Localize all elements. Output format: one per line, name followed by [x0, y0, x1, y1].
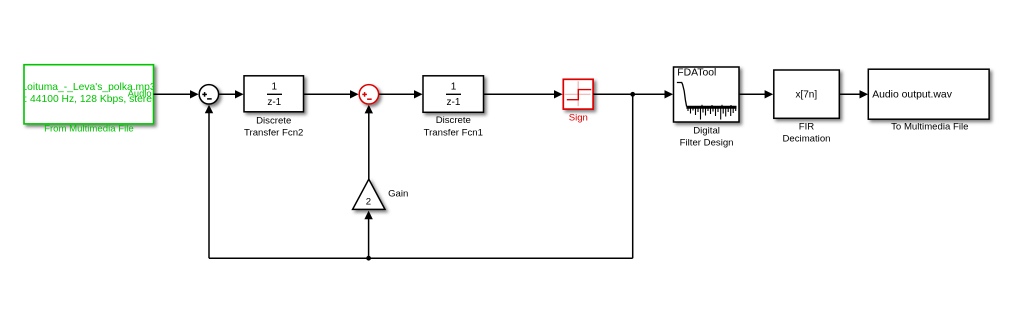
wire [739, 93, 766, 95]
arrowhead [860, 90, 869, 98]
svg-text:Discrete: Discrete [436, 115, 471, 126]
svg-text:z-1: z-1 [447, 97, 461, 108]
wire gain input [368, 217, 370, 258]
wire [304, 93, 352, 95]
arrowhead [350, 90, 359, 98]
arrowhead [190, 90, 199, 98]
arrowhead [554, 90, 563, 98]
arrowhead [364, 211, 372, 220]
svg-text:Transfer Fcn2: Transfer Fcn2 [244, 128, 303, 139]
svg-text:Discrete: Discrete [256, 115, 291, 126]
svg-text:z-1: z-1 [267, 97, 281, 108]
block Sign [563, 79, 593, 123]
svg-text:Sign: Sign [569, 112, 588, 123]
wire [632, 94, 634, 258]
svg-text:To Multimedia File: To Multimedia File [891, 122, 968, 133]
wire [593, 93, 665, 95]
sum S2 [359, 85, 378, 104]
wire [379, 93, 415, 95]
svg-text:1: 1 [272, 82, 278, 93]
arrowhead [414, 90, 423, 98]
svg-text:FIR: FIR [799, 121, 815, 132]
svg-text:Transfer Fcn1: Transfer Fcn1 [424, 128, 483, 139]
block To Multimedia File [868, 69, 989, 132]
arrowhead [765, 90, 774, 98]
svg-text:Audio: Audio [128, 88, 152, 98]
wire [484, 93, 556, 95]
svg-text:x[7n]: x[7n] [795, 89, 817, 100]
svg-text:Filter Design: Filter Design [680, 138, 734, 149]
block Discrete Transfer Fcn2 [244, 76, 304, 139]
arrowhead [235, 90, 244, 98]
wire gain to S2 [368, 112, 370, 181]
wire [219, 93, 236, 95]
wire feedback bottom [209, 257, 633, 259]
svg-text:Gain: Gain [388, 189, 408, 200]
arrowhead [205, 105, 213, 114]
arrowhead [365, 105, 373, 114]
svg-text:2: 2 [366, 196, 371, 207]
gain block [353, 179, 409, 209]
block Discrete Transfer Fcn1 [423, 76, 484, 139]
block Digital Filter Design [674, 67, 740, 149]
svg-text:FDATool: FDATool [677, 68, 716, 79]
junction [366, 256, 371, 261]
svg-text:1: 1 [451, 82, 457, 93]
block From Multimedia File [21, 65, 158, 135]
sum S1 [199, 85, 218, 104]
svg-text:Audio output.wav: Audio output.wav [872, 90, 953, 101]
junction [630, 92, 635, 97]
svg-text:Decimation: Decimation [783, 134, 831, 145]
block FIR Decimation [774, 70, 840, 145]
arrowhead [665, 90, 674, 98]
svg-text:Digital: Digital [693, 125, 720, 136]
wire feedback left vertical [208, 111, 210, 258]
wire [839, 93, 860, 95]
wire [154, 93, 192, 95]
svg-text:From Multimedia File: From Multimedia File [44, 124, 134, 135]
